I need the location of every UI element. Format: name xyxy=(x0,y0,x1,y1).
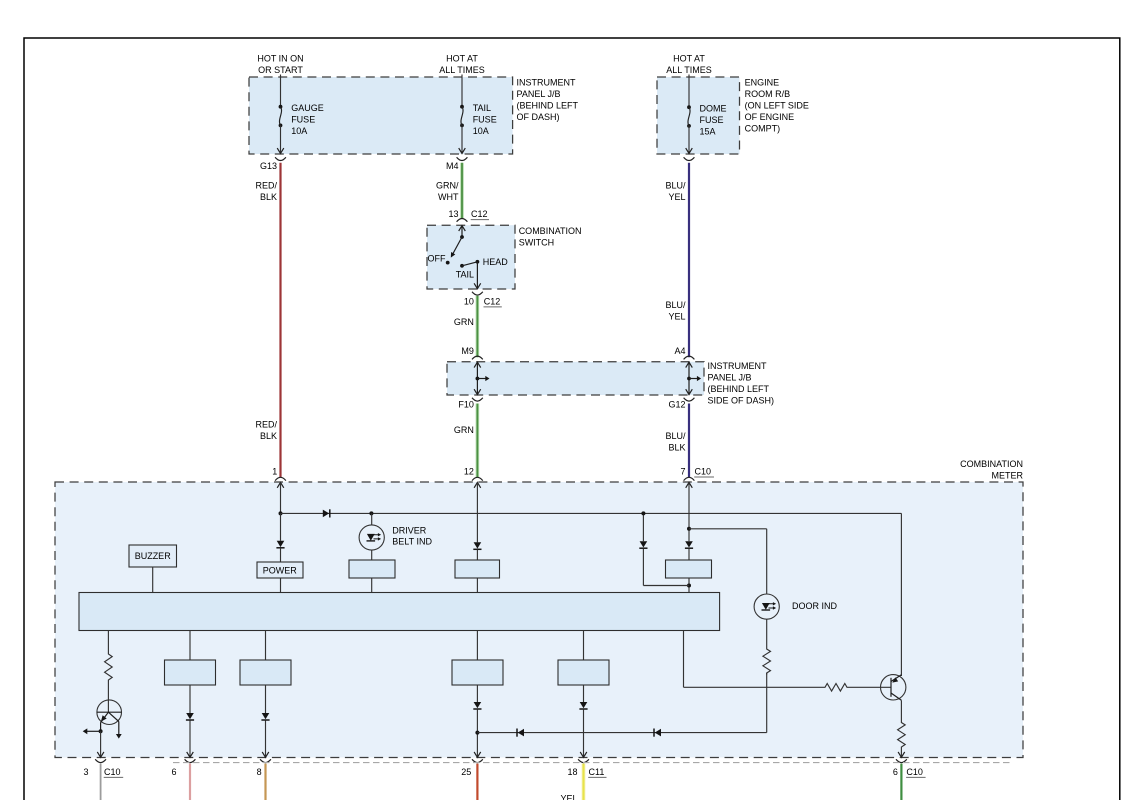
connector G12 xyxy=(668,398,694,410)
wire rail to driver belt LED xyxy=(371,513,373,525)
connector A4 xyxy=(674,346,694,359)
svg-text:DRIVER: DRIVER xyxy=(392,526,427,536)
svg-text:TAIL: TAIL xyxy=(473,103,491,113)
svg-text:BLU/: BLU/ xyxy=(665,431,686,441)
wire bus to box (pin 8) xyxy=(265,631,267,661)
svg-text:SWITCH: SWITCH xyxy=(519,238,555,248)
svg-text:A4: A4 xyxy=(674,346,685,356)
connector M9 xyxy=(461,346,482,359)
svg-text:YEL: YEL xyxy=(668,192,685,202)
wire bus to box (pin 18) xyxy=(583,631,585,661)
wire bus to Q2 base xyxy=(684,631,824,688)
svg-text:G13: G13 xyxy=(260,161,277,171)
node pin1/rail junction xyxy=(279,511,283,515)
wire bus to resistor R1 xyxy=(107,631,109,653)
svg-text:1: 1 xyxy=(272,466,277,476)
node HOT AT ALL TIMES (engine room) xyxy=(666,54,712,76)
svg-text:HOT AT: HOT AT xyxy=(446,54,478,64)
svg-text:12: 12 xyxy=(464,466,474,476)
diode D4 parallel branch xyxy=(639,513,689,585)
svg-text:C10: C10 xyxy=(906,767,923,777)
svg-text:BUZZER: BUZZER xyxy=(135,551,172,561)
svg-text:M9: M9 xyxy=(461,346,474,356)
diode D6 xyxy=(186,685,194,757)
combination meter box xyxy=(55,459,1024,758)
wire box to junction xyxy=(688,578,690,593)
svg-text:COMBINATION: COMBINATION xyxy=(960,459,1023,469)
combination switch box xyxy=(427,225,582,289)
connector G13 xyxy=(260,148,286,171)
component box (driver belt) xyxy=(349,560,395,578)
resistor R4 xyxy=(898,721,906,749)
wire pin 25 (red) xyxy=(476,764,478,800)
svg-text:10A: 10A xyxy=(291,126,307,136)
svg-text:C12: C12 xyxy=(471,209,488,219)
svg-text:6: 6 xyxy=(893,767,898,777)
component box (pin 7) xyxy=(666,560,712,578)
svg-text:METER: METER xyxy=(992,470,1024,480)
svg-text:BELT IND: BELT IND xyxy=(392,537,432,547)
connector pin 12 xyxy=(464,466,483,488)
diode D10 xyxy=(517,729,524,737)
wire resistor to transistor xyxy=(107,682,109,712)
component box (pin 8) xyxy=(240,660,291,685)
diode D5 (pin 7 branch) xyxy=(685,541,693,560)
svg-text:(BEHIND LEFT: (BEHIND LEFT xyxy=(517,101,579,111)
svg-text:INSTRUMENT: INSTRUMENT xyxy=(517,78,576,88)
svg-text:TAIL: TAIL xyxy=(456,270,474,280)
diode D9 xyxy=(579,685,587,757)
switch contact TAIL xyxy=(456,264,474,280)
diode D11 xyxy=(654,729,661,737)
svg-text:BLK: BLK xyxy=(668,443,685,453)
wire resistor to Q2 xyxy=(849,686,892,688)
resistor R2 (door ind) xyxy=(763,648,771,675)
svg-text:G12: G12 xyxy=(668,399,685,409)
bus bar xyxy=(79,593,720,631)
svg-text:OF DASH): OF DASH) xyxy=(517,112,560,122)
connector 13 C12 xyxy=(448,209,489,222)
connector 10 C12 xyxy=(464,292,502,307)
BUZZER box xyxy=(129,545,177,593)
transistor Q1 xyxy=(97,700,122,739)
connector pin 8 xyxy=(257,759,271,777)
wire LED to box xyxy=(371,550,373,560)
svg-text:FUSE: FUSE xyxy=(291,114,315,124)
junction block: ENGINE ROOM R/B xyxy=(657,77,809,154)
connector pin 3 C10 xyxy=(83,759,123,777)
node below box xyxy=(687,584,691,588)
svg-text:RED/: RED/ xyxy=(255,419,277,429)
node Q1 emitter junction xyxy=(99,729,103,733)
J/B internal wire M9-F10 xyxy=(474,362,489,394)
wire pin 3 (gray) xyxy=(100,764,102,800)
connector dome fuse exit xyxy=(684,148,695,160)
svg-text:PANEL J/B: PANEL J/B xyxy=(708,372,752,382)
svg-text:BLK: BLK xyxy=(260,431,277,441)
svg-text:6: 6 xyxy=(171,767,176,777)
svg-text:COMPT): COMPT) xyxy=(745,124,781,134)
resistor R3 (base) xyxy=(824,684,849,692)
component box (pin 25) xyxy=(452,660,503,685)
wire Q2 to resistor R4 xyxy=(900,700,902,721)
svg-text:YEL: YEL xyxy=(668,312,685,322)
wire BLU/BLK xyxy=(665,404,689,478)
wire LED to resistor xyxy=(766,619,768,647)
junction block: INSTRUMENT PANEL J/B (middle) xyxy=(447,361,774,406)
svg-text:(ON LEFT SIDE: (ON LEFT SIDE xyxy=(745,101,809,111)
svg-text:GRN: GRN xyxy=(454,317,474,327)
diode D8 xyxy=(473,685,481,757)
svg-text:OR START: OR START xyxy=(258,65,303,75)
svg-text:ENGINE: ENGINE xyxy=(745,78,780,88)
fuse GAUGE FUSE 10A xyxy=(279,75,324,154)
transistor Q2 xyxy=(881,675,906,701)
svg-text:BLU/: BLU/ xyxy=(665,300,686,310)
wire RED/BLK xyxy=(255,163,280,477)
svg-text:OFF: OFF xyxy=(428,253,446,263)
svg-text:HOT AT: HOT AT xyxy=(673,54,705,64)
svg-text:DOME: DOME xyxy=(700,103,727,113)
connector pin 6 C10 (right) xyxy=(893,759,926,777)
svg-text:C10: C10 xyxy=(695,467,712,477)
node HOT IN ON OR START xyxy=(257,54,303,76)
connector M4 xyxy=(446,148,467,171)
svg-text:15A: 15A xyxy=(700,126,716,136)
diode return line xyxy=(477,732,766,734)
wire bus to box (pin 25) xyxy=(476,631,478,661)
svg-text:F10: F10 xyxy=(458,399,474,409)
svg-text:SIDE OF DASH): SIDE OF DASH) xyxy=(708,395,775,405)
svg-text:GRN: GRN xyxy=(454,425,474,435)
svg-text:GRN/: GRN/ xyxy=(436,180,459,190)
connector F10 xyxy=(458,398,482,410)
wire pin 1 to rail xyxy=(280,482,282,513)
wire HEAD to pin 10 xyxy=(474,262,481,289)
node pin25 diode line xyxy=(475,731,479,735)
svg-text:FUSE: FUSE xyxy=(473,114,497,124)
svg-text:M4: M4 xyxy=(446,161,459,171)
svg-text:C11: C11 xyxy=(589,767,605,777)
svg-text:8: 8 xyxy=(257,767,262,777)
svg-text:RED/: RED/ xyxy=(255,180,277,190)
fuse TAIL FUSE 10A xyxy=(460,75,497,154)
svg-text:C10: C10 xyxy=(104,767,121,777)
svg-text:10A: 10A xyxy=(473,126,489,136)
wire GRN (switch to J/B) xyxy=(454,296,478,357)
connector pin 1 xyxy=(272,466,286,488)
component box (pin 18) xyxy=(558,660,609,685)
svg-text:BLK: BLK xyxy=(260,192,277,202)
switch lever xyxy=(451,237,462,258)
J/B internal wire A4-G12 xyxy=(686,362,701,394)
connector pin 7 C10 xyxy=(680,467,714,488)
wire pin 18 (yellow) xyxy=(582,764,586,800)
svg-text:ALL TIMES: ALL TIMES xyxy=(666,65,712,75)
POWER box xyxy=(257,562,303,593)
svg-text:ALL TIMES: ALL TIMES xyxy=(439,65,485,75)
LED DRIVER BELT IND xyxy=(359,525,432,550)
resistor R1 xyxy=(105,652,113,682)
svg-text:(BEHIND LEFT: (BEHIND LEFT xyxy=(708,384,770,394)
next block top border (partial) xyxy=(173,762,1013,764)
svg-text:3: 3 xyxy=(83,767,88,777)
svg-text:POWER: POWER xyxy=(263,566,298,576)
diode D7 xyxy=(261,685,269,757)
diode D1 on rail xyxy=(323,509,330,517)
wire pin 8 (tan) xyxy=(264,764,266,800)
wire resistor to diode line xyxy=(766,673,768,733)
node HOT AT ALL TIMES (instrument panel) xyxy=(439,54,485,76)
svg-text:BLU/: BLU/ xyxy=(665,180,686,190)
wire GRN (J/B to meter) xyxy=(454,404,478,478)
svg-text:25: 25 xyxy=(461,767,471,777)
wire box to bus xyxy=(371,578,373,593)
switch contact HEAD xyxy=(476,257,509,267)
node driver belt branch xyxy=(369,511,373,515)
component box (pin 6) xyxy=(165,660,216,685)
svg-text:INSTRUMENT: INSTRUMENT xyxy=(708,361,767,371)
switch contact OFF xyxy=(428,253,450,264)
connector pin 6 xyxy=(171,759,195,777)
wire box to bus xyxy=(476,578,478,593)
svg-text:7: 7 xyxy=(680,467,685,477)
svg-text:HOT IN ON: HOT IN ON xyxy=(257,54,303,64)
node parallel branch on rail xyxy=(641,511,645,515)
svg-text:OF ENGINE: OF ENGINE xyxy=(745,112,795,122)
svg-text:YEL: YEL xyxy=(560,793,577,800)
wire pin 12 branch xyxy=(473,482,481,560)
svg-text:10: 10 xyxy=(464,297,474,307)
svg-text:GAUGE: GAUGE xyxy=(291,103,324,113)
connector pin 18 C11 xyxy=(567,759,606,777)
fuse DOME FUSE 15A xyxy=(687,75,726,154)
wire to pin 3 xyxy=(97,731,104,757)
svg-text:COMBINATION: COMBINATION xyxy=(519,226,582,236)
arrow to left xyxy=(83,728,101,734)
svg-text:WHT: WHT xyxy=(438,192,459,202)
wire pin 6 right (green) xyxy=(900,764,902,800)
wire pin 6 (pink) xyxy=(189,764,191,800)
svg-text:DOOR IND: DOOR IND xyxy=(792,601,838,611)
svg-text:ROOM R/B: ROOM R/B xyxy=(745,89,791,99)
wire pin7 to door ind xyxy=(689,529,767,594)
diode D2 (pin 1 branch) xyxy=(276,513,284,562)
svg-text:C12: C12 xyxy=(484,297,501,307)
component box (pin 12) xyxy=(455,560,500,578)
svg-text:PANEL J/B: PANEL J/B xyxy=(517,89,561,99)
wire BLU/YEL xyxy=(665,163,689,357)
LED DOOR IND xyxy=(754,594,837,619)
node pin7 door branch xyxy=(687,527,691,531)
wire GRN/WHT xyxy=(436,163,462,219)
svg-text:18: 18 xyxy=(567,767,577,777)
connector pin 25 xyxy=(461,759,483,777)
junction block: INSTRUMENT PANEL J/B (top) xyxy=(249,77,579,154)
wire TAIL to HEAD xyxy=(462,262,477,266)
svg-text:HEAD: HEAD xyxy=(483,257,509,267)
wire pin 7 branch xyxy=(688,482,690,541)
wire bus to box (pin 6) xyxy=(189,631,191,661)
power rail wire xyxy=(281,513,902,676)
svg-text:FUSE: FUSE xyxy=(700,115,724,125)
wire resistor to pin 6 xyxy=(898,749,905,758)
svg-text:13: 13 xyxy=(448,209,458,219)
switch contact arrow (pin 13) xyxy=(459,226,466,239)
